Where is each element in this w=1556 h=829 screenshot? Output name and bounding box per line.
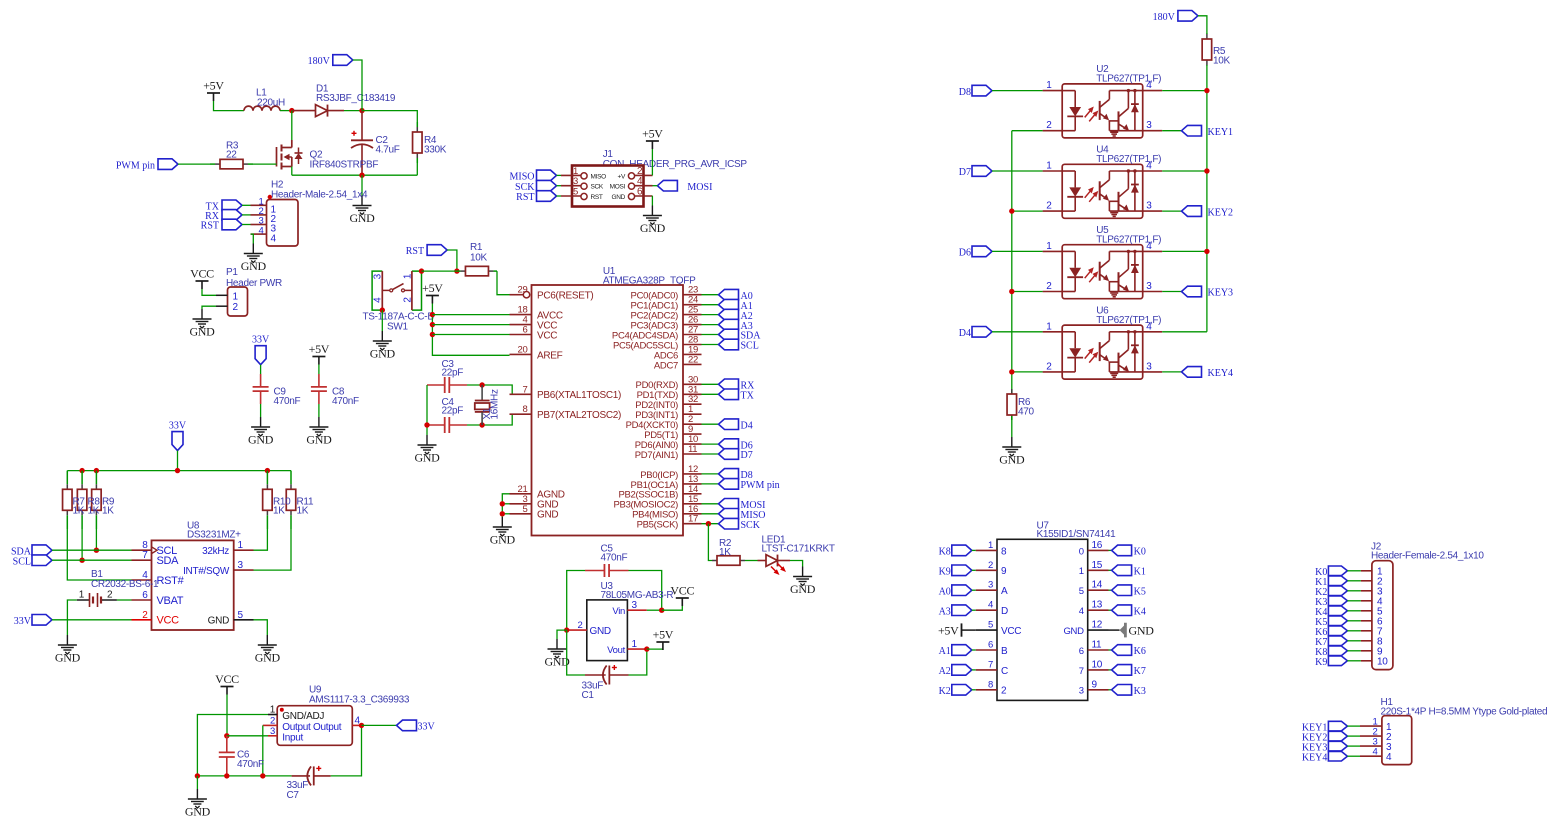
label R8 (88, 497, 101, 517)
svg-text:TX: TX (741, 391, 755, 402)
wire U5 pin4 to 180V bus (1162, 250, 1207, 252)
svg-text:LTST-C171KRKT: LTST-C171KRKT (762, 544, 835, 555)
wire C8 to ground (318, 404, 320, 417)
net flag A3 (U7) (939, 605, 972, 618)
junction 180V bus U5 (1204, 249, 1209, 254)
label C5 (601, 544, 628, 564)
wire J1 pin4 to MOSI (653, 185, 658, 187)
junction SCK to R2 (706, 521, 711, 526)
wire 180V right bus (1206, 91, 1208, 332)
svg-text:2: 2 (142, 610, 148, 621)
svg-text:1K: 1K (88, 506, 100, 517)
label U9 (309, 685, 410, 706)
ground (C9) (248, 417, 274, 447)
svg-text:7: 7 (1079, 666, 1084, 677)
net flag K5 (U7) (1112, 585, 1146, 598)
svg-text:10K: 10K (1213, 56, 1231, 67)
wire D4 to U6 pin1 (992, 331, 1043, 333)
wire battery to ground (67, 600, 76, 635)
net flag 33V (U8 VCC) (14, 615, 52, 628)
wire U7 to K1 (1109, 569, 1112, 571)
svg-text:K3: K3 (1134, 686, 1146, 697)
wire R10 to 32kHz row (254, 529, 268, 550)
svg-text:K0: K0 (1134, 547, 1146, 558)
net flag SDA (U1) (719, 329, 762, 342)
wire U7 to K3 (1109, 689, 1112, 691)
IC U8 DS3231MZ+ (132, 540, 254, 630)
svg-text:+5V: +5V (653, 628, 674, 642)
net flag D6 (U1) (719, 439, 753, 452)
label R10 (273, 497, 291, 517)
net flag K2 (J2) (1315, 586, 1347, 598)
label R11 (297, 497, 314, 517)
net flag SDA (U8) (11, 545, 52, 558)
resistor R3 22 (210, 141, 253, 169)
svg-text:1: 1 (632, 639, 638, 650)
svg-text:4: 4 (1146, 161, 1152, 172)
svg-text:VCC: VCC (215, 672, 239, 686)
ground (boost) (349, 196, 375, 226)
net flag MISO (J1) (509, 170, 556, 183)
wire J1 pin6 to ground (651, 196, 653, 206)
label U7 (1037, 521, 1117, 541)
connector J2 Header-Female-2.54_1x10 (1361, 561, 1393, 670)
net flag D7 (opto U4) (959, 166, 992, 179)
svg-text:6: 6 (523, 325, 528, 336)
svg-text:RST#: RST# (157, 575, 185, 587)
svg-text:GND: GND (255, 651, 281, 665)
svg-text:4: 4 (373, 297, 384, 303)
ground (C8) (306, 417, 332, 447)
svg-text:220uH: 220uH (257, 98, 285, 109)
wire K2 to J2 (1347, 590, 1361, 592)
wire U7 to K7 (1109, 669, 1112, 671)
wire KEY3 to H1 (1347, 745, 1360, 747)
wire GND pin3 (502, 503, 509, 505)
svg-text:KEY3: KEY3 (1208, 288, 1234, 299)
svg-text:330K: 330K (424, 144, 447, 155)
svg-text:12: 12 (1092, 620, 1103, 631)
svg-text:PD7(AIN1): PD7(AIN1) (635, 450, 678, 461)
svg-text:GND: GND (590, 626, 611, 637)
wire P1 pin2 to ground (202, 306, 216, 309)
svg-text:3: 3 (988, 580, 993, 591)
svg-text:8: 8 (1001, 546, 1007, 557)
svg-text:7: 7 (142, 550, 148, 561)
wire U1 to SCL (702, 344, 719, 346)
power +5V (U3 out) (653, 628, 674, 651)
connector H2 Header-Male-2.54_1x4 (251, 195, 299, 246)
wire U2 pin4 to 180V bus (1162, 90, 1207, 92)
net flag SCL (U1) (719, 339, 759, 352)
svg-text:1: 1 (1046, 80, 1052, 91)
svg-text:6: 6 (988, 640, 993, 651)
svg-text:2: 2 (403, 297, 414, 303)
svg-text:AMS1117-3.3_C369933: AMS1117-3.3_C369933 (309, 695, 410, 706)
wire RX to H2 pin2 (242, 214, 251, 216)
svg-text:470nF: 470nF (332, 396, 359, 407)
wire TX to H2 pin1 (242, 204, 251, 206)
wire U4 pin2 to bus (1012, 210, 1043, 212)
svg-text:GND: GND (241, 259, 267, 273)
svg-text:4: 4 (988, 600, 993, 611)
ground (H2 pin4) (241, 244, 267, 274)
net flag A1 (U7) (939, 645, 972, 658)
resistor R4 330K (413, 122, 423, 163)
junction U9 out (359, 723, 364, 728)
svg-text:33V: 33V (14, 616, 32, 627)
net flag KEY4 (1182, 367, 1234, 380)
net flag A3 (U1) (719, 319, 753, 332)
svg-text:180V: 180V (1153, 12, 1176, 23)
label R6 (1018, 397, 1035, 418)
svg-text:4: 4 (1146, 321, 1152, 332)
svg-text:K8: K8 (939, 547, 951, 558)
resistor R2 1K (712, 538, 745, 565)
label R9 (102, 497, 115, 517)
net flag KEY3 (1182, 286, 1234, 299)
wire U1 to D8 (702, 473, 719, 475)
opto-isolator U4 TLP627 (1043, 145, 1163, 219)
wire U6 pin2 to bus (1012, 371, 1043, 373)
power VCC (U3) (670, 584, 694, 607)
svg-text:1: 1 (270, 705, 276, 716)
net flag D6 (opto U5) (959, 246, 992, 259)
svg-text:3: 3 (1146, 361, 1152, 372)
svg-text:180V: 180V (308, 56, 331, 67)
svg-text:470nF: 470nF (274, 396, 301, 407)
svg-text:GND: GND (306, 433, 332, 447)
wire RST to J1 (557, 195, 562, 197)
label J1 (603, 149, 748, 170)
wire U1 to A1 (702, 304, 719, 306)
svg-text:22: 22 (688, 354, 698, 365)
svg-text:GND/ADJ: GND/ADJ (282, 711, 324, 722)
wire K9 to U7 (972, 569, 976, 571)
svg-text:GND: GND (490, 533, 516, 547)
wire R3 to Q2 gate (253, 163, 277, 165)
svg-text:6: 6 (637, 187, 643, 198)
wire battery to U8 VBAT (117, 599, 132, 601)
svg-text:GND: GND (248, 433, 274, 447)
wire +5V to J1 pin2 (651, 149, 653, 175)
svg-text:5: 5 (523, 504, 528, 515)
label P1 (226, 267, 282, 289)
svg-text:3: 3 (1146, 281, 1152, 292)
svg-text:GND: GND (370, 347, 396, 361)
label C1 (582, 681, 604, 702)
wire R6 to ground (1011, 416, 1013, 437)
svg-text:D: D (1001, 606, 1008, 617)
svg-text:15: 15 (1092, 560, 1103, 571)
power +5V (U7 pin5) (938, 623, 976, 637)
svg-text:4: 4 (1146, 241, 1152, 252)
wire VCC6 row (432, 334, 509, 336)
power GND (U7 pin12) (1109, 623, 1155, 638)
wire +5V to C8 (318, 365, 320, 375)
transistor Q2 IRF840STRPBF (N-MOSFET) (277, 140, 379, 171)
diode D1 RS3JBF_C183419 (292, 84, 396, 117)
label C7 (287, 780, 309, 801)
label C6 (237, 750, 264, 771)
wire K4 to J2 (1347, 610, 1361, 612)
wire +5V column U1 (432, 304, 509, 356)
svg-text:D7: D7 (959, 167, 971, 178)
net flag KEY4 (H1) (1302, 751, 1348, 763)
net flag D4 (U1) (719, 419, 753, 432)
net flag SCL (U8) (13, 555, 52, 568)
junction Vout/C1 (644, 646, 649, 651)
net flag K8 (J2) (1315, 646, 1347, 658)
svg-text:D8: D8 (959, 87, 971, 98)
ground (U1) (490, 517, 516, 547)
svg-text:2: 2 (1046, 201, 1052, 212)
wire U1 to A0 (702, 294, 719, 296)
connector P1 Header PWR (216, 287, 248, 316)
ground (SW1) (370, 331, 396, 361)
ground (U8) (255, 635, 281, 665)
IC U3 78L05MG-AB3-R (567, 600, 647, 661)
svg-text:10K: 10K (470, 253, 488, 264)
svg-text:+5V: +5V (938, 623, 959, 637)
junction bus U6 (1009, 369, 1014, 374)
wire L1 to junction (280, 110, 292, 112)
LED LED1 LTST-C171KRKT (758, 535, 835, 576)
opto-isolator U5 TLP627 (1043, 225, 1163, 299)
net flag 180V (opto) (1153, 11, 1198, 24)
svg-text:C7: C7 (287, 790, 300, 801)
svg-text:4: 4 (1079, 606, 1084, 617)
wire AVCC row (432, 314, 509, 316)
svg-text:RST: RST (591, 194, 603, 201)
junction bus U5 (1009, 289, 1014, 294)
svg-text:1K: 1K (719, 547, 731, 558)
wire U7 to K6 (1109, 649, 1112, 651)
junction 180V bus U2 (1204, 88, 1209, 93)
svg-text:GND: GND (349, 211, 375, 225)
label R7 (73, 497, 86, 517)
svg-text:4: 4 (1146, 80, 1152, 91)
wire U7 to K0 (1109, 549, 1112, 551)
svg-text:C1: C1 (582, 690, 595, 701)
junction bus U4 (1009, 208, 1014, 213)
wire boost bottom rail (292, 174, 418, 176)
net flag K1 (U7) (1112, 565, 1146, 578)
wire K8 to J2 (1347, 650, 1361, 652)
svg-text:1: 1 (1046, 161, 1052, 172)
wire +5V to L1 (214, 101, 245, 111)
svg-text:GND: GND (55, 651, 81, 665)
net flag TX (206, 200, 242, 213)
wire U1 to SDA (702, 334, 719, 336)
svg-text:VCC: VCC (670, 584, 694, 598)
svg-text:KEY4: KEY4 (1208, 368, 1234, 379)
wire pullup rail (67, 470, 291, 472)
svg-text:K7: K7 (1134, 666, 1146, 677)
svg-text:VCC: VCC (190, 267, 214, 281)
net flag RST (pullup) (406, 245, 447, 258)
junction VCC/C6/Input (224, 733, 229, 738)
junction rail R8 (79, 468, 84, 473)
svg-text:+5V: +5V (422, 281, 443, 295)
svg-text:8: 8 (523, 404, 528, 415)
svg-text:33V: 33V (418, 722, 436, 733)
svg-text:K1: K1 (1134, 567, 1146, 578)
wire SW1 to RST row (422, 270, 457, 272)
resistor R5 10K (1202, 33, 1212, 66)
svg-text:GND: GND (1129, 623, 1155, 637)
junction xtal top (479, 382, 484, 387)
net flag PWM pin (116, 159, 178, 172)
net flag K6 (U7) (1112, 645, 1146, 658)
IC U7 K155ID1/SN74141 (976, 539, 1109, 700)
wire A1 to U7 (972, 649, 976, 651)
capacitor C5 470nF (585, 564, 629, 577)
svg-text:9: 9 (1001, 566, 1007, 577)
svg-text:9: 9 (1092, 679, 1098, 690)
junction +5V/VCC4 (430, 322, 435, 327)
net flag KEY2 (H1) (1302, 731, 1348, 743)
svg-text:RS3JBF_C183419: RS3JBF_C183419 (316, 93, 396, 104)
svg-text:17: 17 (688, 514, 698, 525)
wire LED1 to ground (790, 561, 803, 567)
svg-text:GND: GND (414, 451, 440, 465)
svg-text:PC6(RESET): PC6(RESET) (537, 291, 593, 302)
capacitor C3 22pF (427, 377, 467, 393)
svg-text:B: B (1001, 646, 1008, 657)
wire top rail to R4 (362, 111, 417, 122)
wire U1 to D6 (702, 443, 719, 445)
svg-text:3: 3 (632, 600, 638, 611)
svg-text:5: 5 (238, 610, 244, 621)
junction SW1 pin1 to RST row (419, 268, 424, 273)
svg-text:0: 0 (1079, 546, 1084, 557)
svg-text:2: 2 (107, 590, 113, 601)
svg-text:1: 1 (1046, 321, 1052, 332)
net flag KEY1 (1182, 125, 1234, 137)
svg-text:K2: K2 (939, 686, 951, 697)
wire SCK down to R2 (708, 524, 712, 561)
svg-text:7: 7 (523, 384, 528, 395)
svg-text:A3: A3 (939, 606, 951, 617)
svg-text:470: 470 (1018, 407, 1035, 418)
wire R2 to LED1 (745, 560, 758, 562)
resistor R6 470 (1007, 389, 1017, 420)
label U8 (187, 521, 241, 541)
svg-text:A: A (1001, 586, 1008, 597)
net flag K7 (J2) (1315, 636, 1347, 648)
junction +5V/VCC6 (430, 332, 435, 337)
wire U1 to SCK (702, 523, 719, 525)
wire C7 to pin4 column (331, 725, 362, 776)
wire K7 to J2 (1347, 640, 1361, 642)
svg-text:RST: RST (406, 246, 424, 257)
svg-text:20: 20 (518, 344, 528, 355)
svg-text:11: 11 (688, 444, 697, 455)
net flag A0 (U7) (939, 585, 972, 598)
wire K9 to J2 (1347, 660, 1361, 662)
net flag SCK (U1) (719, 518, 761, 531)
svg-text:1K: 1K (273, 506, 285, 517)
resistor R10 1K (263, 471, 273, 529)
wire bottom rail U9 (197, 775, 291, 777)
svg-text:AREF: AREF (537, 350, 563, 361)
wire C9 to ground (260, 404, 262, 417)
wire A0 to U7 (972, 589, 976, 591)
svg-text:PB7(XTAL2TOSC2): PB7(XTAL2TOSC2) (537, 410, 621, 421)
wire VCC down to Input (226, 695, 228, 736)
capacitor C7 33uF (292, 766, 331, 786)
wire xtal bottom row (467, 414, 520, 425)
svg-text:2: 2 (1046, 120, 1052, 131)
svg-text:3: 3 (1146, 201, 1152, 212)
label J2 (1371, 542, 1484, 562)
net flag PWM pin (U1) (719, 479, 780, 492)
svg-text:2: 2 (1046, 361, 1052, 372)
label C3 (442, 359, 464, 379)
svg-text:2: 2 (1046, 281, 1052, 292)
svg-text:14: 14 (1092, 580, 1103, 591)
capacitor C4 22pF (427, 417, 467, 433)
wire SDA to U8 (52, 549, 132, 551)
wire U7 to K5 (1109, 589, 1112, 591)
wire RST to H2 pin3 (242, 224, 251, 226)
junction xtal bottom (479, 422, 484, 427)
svg-text:5: 5 (1079, 586, 1084, 597)
net flag K9 (U7) (939, 565, 972, 578)
svg-text:1K: 1K (73, 506, 85, 517)
wire U3 GND down to C1 (567, 630, 585, 675)
wire K0 to J2 (1347, 570, 1361, 572)
svg-text:6: 6 (142, 590, 148, 601)
svg-text:MOSI: MOSI (610, 184, 626, 191)
net flag D4 (opto U6) (959, 327, 992, 340)
power +5V (U1) (422, 281, 443, 304)
wire 33V to C9 (260, 365, 262, 374)
net flag MOSI (U1) (719, 499, 766, 512)
svg-text:ADC7: ADC7 (654, 360, 678, 371)
svg-text:16: 16 (1092, 540, 1103, 551)
wire caps to ground (426, 385, 428, 435)
svg-text:8: 8 (988, 679, 993, 690)
svg-text:R1: R1 (470, 242, 483, 253)
svg-text:INT#/SQW: INT#/SQW (183, 566, 230, 577)
junction rail R10 (265, 468, 270, 473)
net flag RST (J1) (516, 191, 556, 204)
resistor R1 10K (457, 242, 497, 276)
net flag 33V (C9) (252, 335, 270, 365)
svg-text:A2: A2 (939, 666, 951, 677)
svg-text:470nF: 470nF (237, 759, 264, 770)
wire R8 to SDA row (81, 529, 83, 560)
net flag K4 (U7) (1112, 605, 1146, 618)
net flag A1 (U1) (719, 299, 753, 312)
svg-text:1: 1 (403, 273, 414, 279)
wire RST flag to column (447, 250, 457, 271)
junction GND pin3 (500, 501, 505, 506)
net flag D8 (opto U2) (959, 85, 992, 98)
net flag K1 (J2) (1315, 576, 1347, 588)
ground (U3) (544, 639, 570, 669)
switch SW1 TS-1187A-C-C-B (363, 271, 435, 332)
svg-text:SDA: SDA (157, 555, 180, 567)
capacitor C1 33uF (585, 665, 629, 685)
svg-text:MOSI: MOSI (687, 182, 712, 193)
wire K3 to J2 (1347, 600, 1361, 602)
svg-text:11: 11 (1092, 640, 1103, 651)
net flag SCK (J1) (515, 180, 556, 193)
svg-text:SCL: SCL (741, 341, 759, 352)
